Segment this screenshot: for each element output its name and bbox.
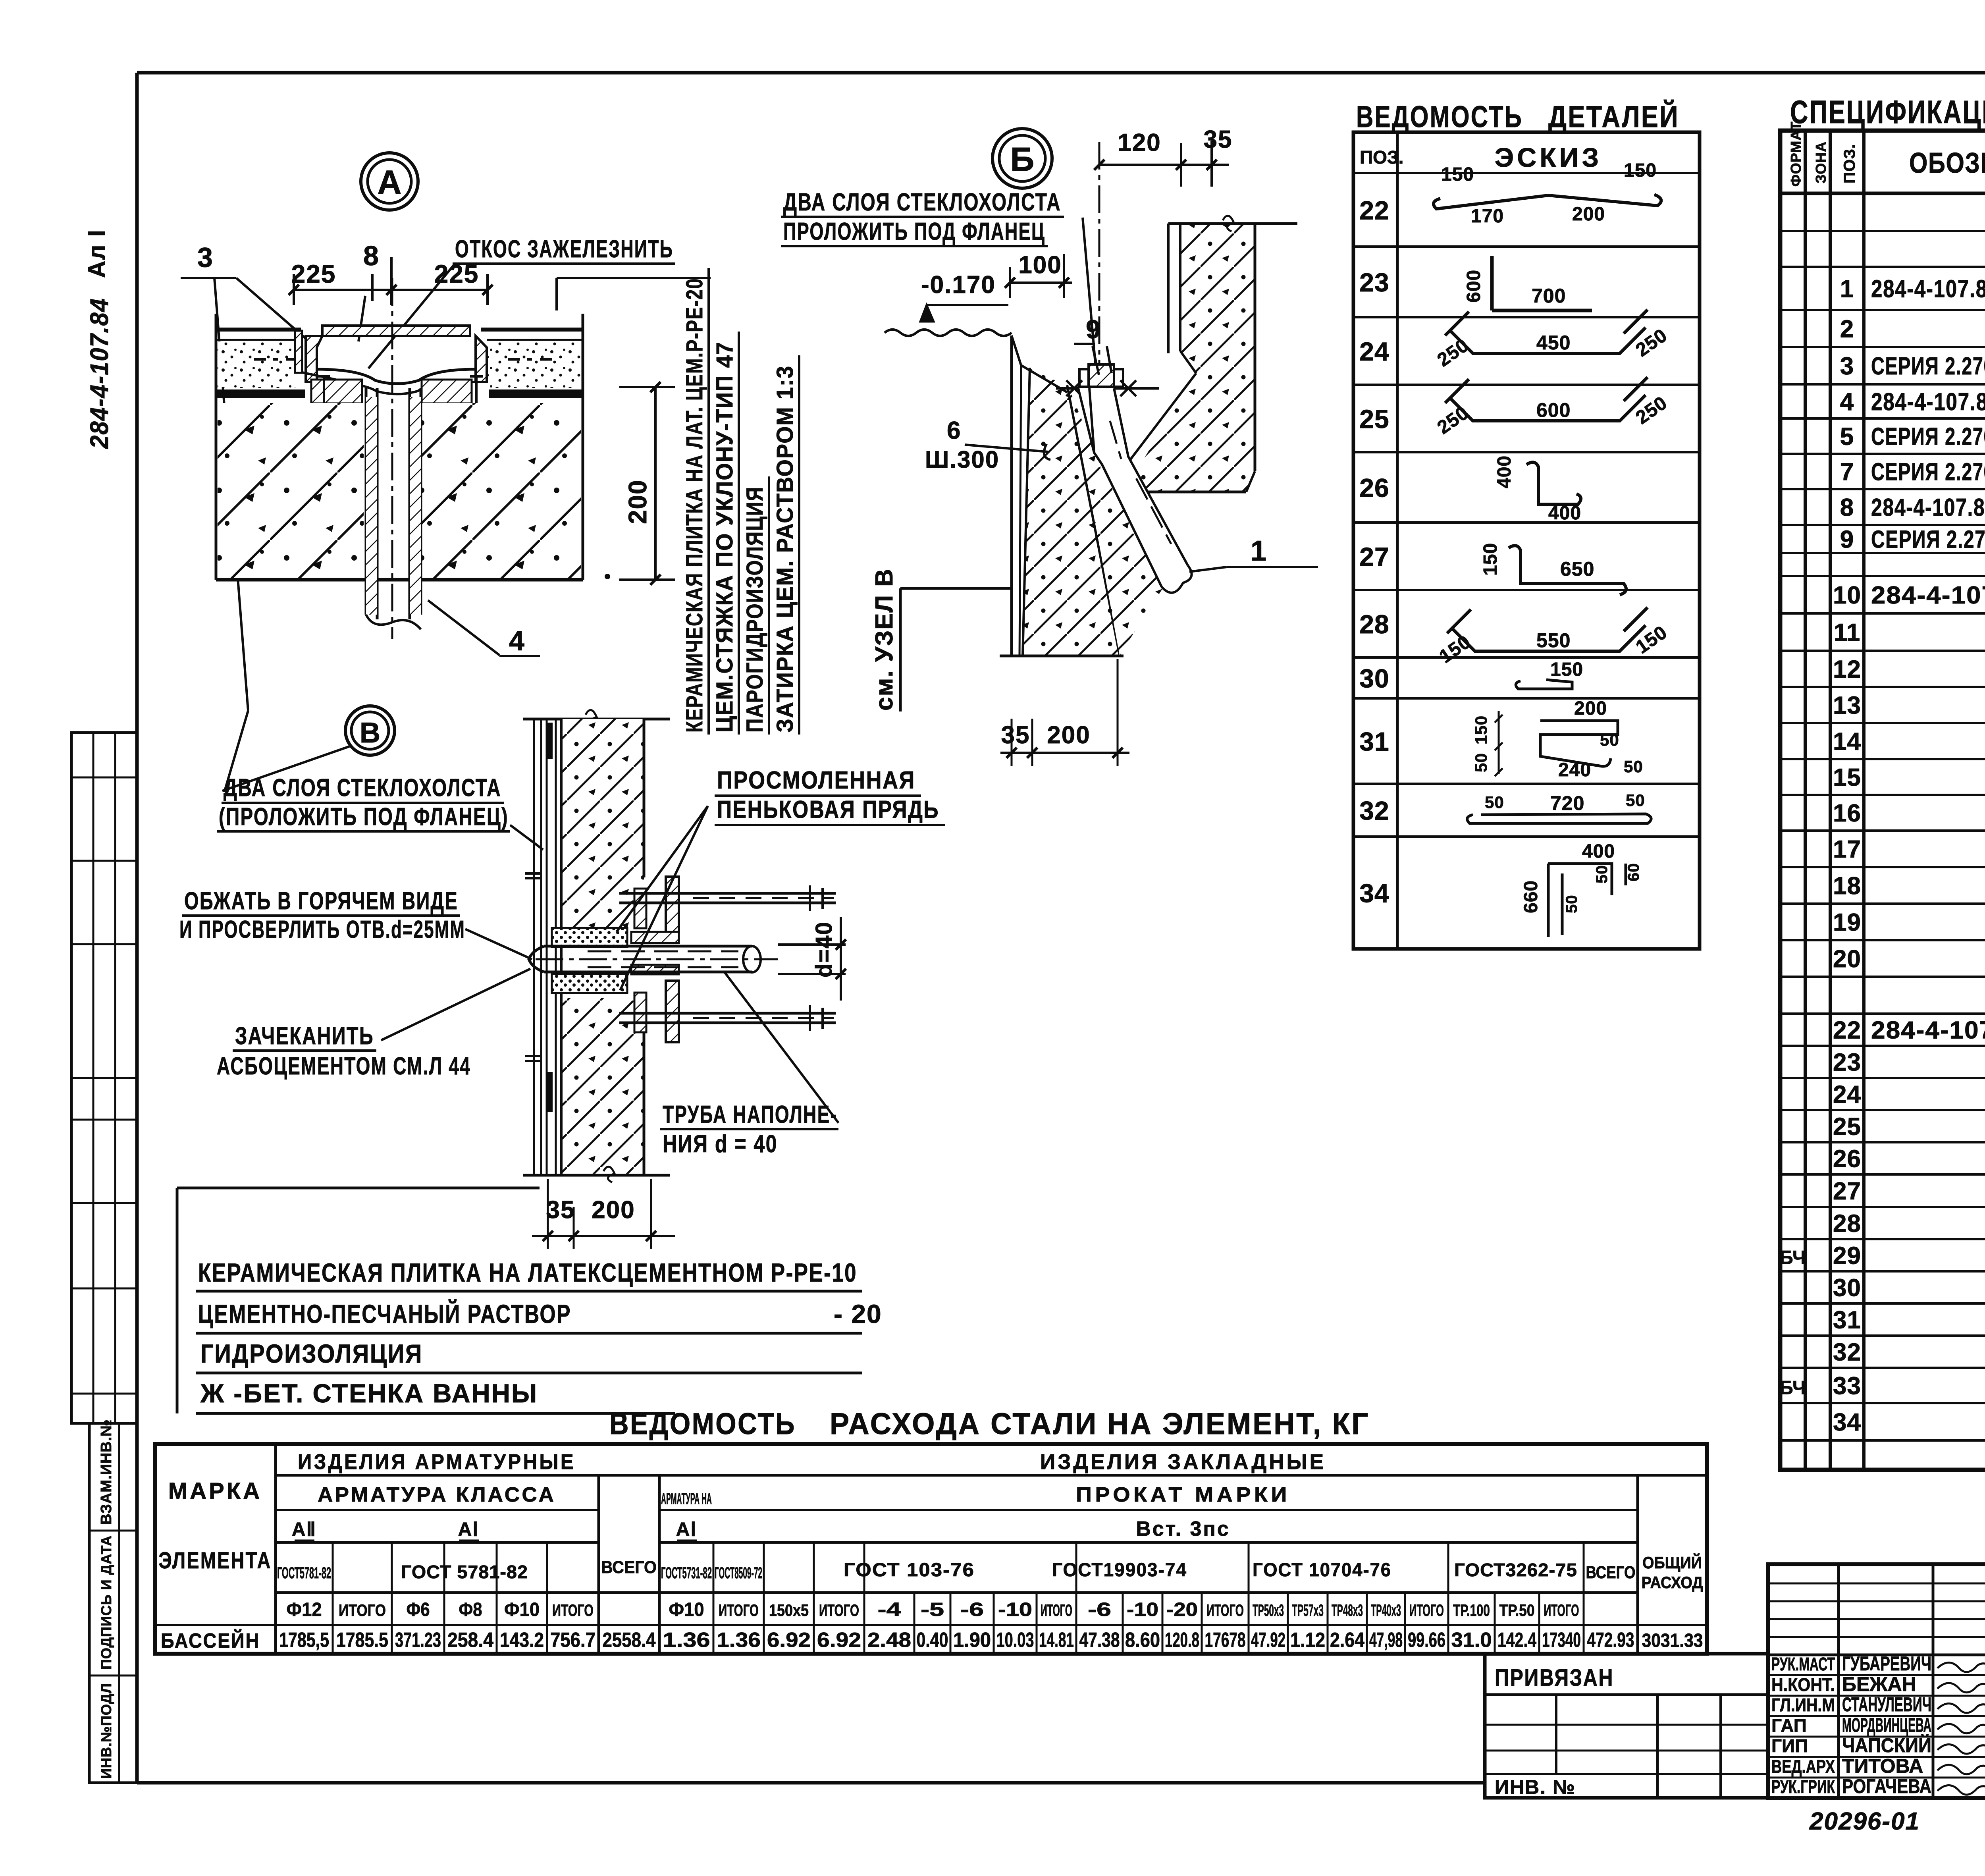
svg-text:400: 400	[1494, 455, 1515, 488]
svg-text:МОРДВИНЦЕВА: МОРДВИНЦЕВА	[1842, 1714, 1931, 1736]
svg-text:34: 34	[1359, 879, 1389, 908]
svg-text:ЗАЧЕКАНИТЬ: ЗАЧЕКАНИТЬ	[235, 1022, 374, 1050]
svg-text:35: 35	[546, 1196, 575, 1224]
svg-text:14.81: 14.81	[1039, 1629, 1074, 1652]
svg-text:ТР50х3: ТР50х3	[1253, 1601, 1284, 1620]
svg-text:Ж -БЕТ. СТЕНКА ВАННЫ: Ж -БЕТ. СТЕНКА ВАННЫ	[200, 1379, 538, 1408]
svg-text:11: 11	[1834, 619, 1861, 646]
svg-text:ОБЩИЙ: ОБЩИЙ	[1642, 1553, 1702, 1572]
svg-text:ВЕД.АРХ: ВЕД.АРХ	[1771, 1756, 1835, 1777]
svg-text:ГОСТ19903-74: ГОСТ19903-74	[1052, 1560, 1187, 1581]
svg-text:РОГАЧЕВА: РОГАЧЕВА	[1842, 1775, 1931, 1797]
svg-text:ИТОГО: ИТОГО	[1041, 1601, 1072, 1620]
svg-text:СПЕЦИФИКАЦИЯ: СПЕЦИФИКАЦИЯ	[1790, 94, 1985, 130]
svg-text:1: 1	[1251, 535, 1266, 567]
svg-text:14: 14	[1833, 728, 1861, 756]
svg-text:284-4-107.85 АС1.ИЗ -10. 00: 284-4-107.85 АС1.ИЗ -10. 00	[1871, 276, 1985, 303]
svg-text:ЦЕМЕНТНО-ПЕСЧАНЫЙ РАСТВОР: ЦЕМЕНТНО-ПЕСЧАНЫЙ РАСТВОР	[198, 1299, 571, 1328]
svg-text:284-4-107,85 АС1 Л.47: 284-4-107,85 АС1 Л.47	[1871, 1017, 1985, 1044]
svg-text:170: 170	[1471, 206, 1504, 227]
svg-text:200: 200	[1047, 721, 1090, 749]
svg-text:30: 30	[1359, 664, 1389, 693]
svg-text:2.48: 2.48	[867, 1629, 911, 1652]
svg-text:-5: -5	[921, 1599, 944, 1620]
svg-text:ТР.50: ТР.50	[1499, 1601, 1535, 1620]
svg-text:600: 600	[1536, 399, 1571, 421]
svg-text:Вст. 3пс: Вст. 3пс	[1136, 1517, 1230, 1541]
svg-text:ГИДРОИЗОЛЯЦИЯ: ГИДРОИЗОЛЯЦИЯ	[200, 1339, 423, 1368]
svg-text:ИТОГО: ИТОГО	[819, 1601, 859, 1620]
svg-text:ДВА СЛОЯ СТЕКЛОХОЛСТА: ДВА СЛОЯ СТЕКЛОХОЛСТА	[224, 774, 501, 802]
svg-text:ОБЖАТЬ В ГОРЯЧЕМ ВИДЕ: ОБЖАТЬ В ГОРЯЧЕМ ВИДЕ	[184, 887, 458, 915]
svg-text:-6: -6	[960, 1599, 984, 1620]
svg-text:- 20: - 20	[834, 1299, 882, 1328]
svg-text:СТАНУЛЕВИЧ: СТАНУЛЕВИЧ	[1842, 1693, 1931, 1716]
svg-text:ФОРМАТ: ФОРМАТ	[1788, 121, 1804, 187]
svg-text:Ф10: Ф10	[504, 1599, 540, 1620]
svg-text:АСБОЦЕМЕНТОМ СМ.Л 44: АСБОЦЕМЕНТОМ СМ.Л 44	[217, 1053, 471, 1080]
svg-text:СЕРИЯ 2.270-1 ВЫП.2ЛИСТ54: СЕРИЯ 2.270-1 ВЫП.2ЛИСТ54	[1871, 423, 1985, 451]
svg-text:200: 200	[623, 479, 652, 524]
svg-text:142.4: 142.4	[1497, 1629, 1536, 1652]
svg-text:ИТОГО: ИТОГО	[1206, 1601, 1244, 1620]
svg-text:ГАП: ГАП	[1771, 1715, 1807, 1736]
svg-text:143.2: 143.2	[500, 1629, 544, 1652]
svg-text:16: 16	[1833, 800, 1861, 827]
svg-text:НИЯ d = 40: НИЯ d = 40	[663, 1130, 778, 1158]
svg-text:ГОСТ 10704-76: ГОСТ 10704-76	[1253, 1560, 1391, 1581]
svg-text:-10: -10	[998, 1599, 1032, 1620]
svg-text:17340: 17340	[1542, 1629, 1581, 1652]
svg-text:472.93: 472.93	[1587, 1629, 1634, 1652]
svg-text:ВСЕГО: ВСЕГО	[1586, 1563, 1636, 1582]
svg-text:2.64: 2.64	[1330, 1629, 1364, 1652]
svg-text:22: 22	[1359, 196, 1389, 225]
svg-text:28: 28	[1833, 1210, 1861, 1238]
svg-text:50: 50	[1600, 731, 1619, 749]
svg-text:Ш.300: Ш.300	[925, 446, 999, 473]
svg-text:РАСХОДА СТАЛИ НА ЭЛЕМЕНТ, КГ: РАСХОДА СТАЛИ НА ЭЛЕМЕНТ, КГ	[830, 1407, 1370, 1441]
svg-text:50: 50	[1593, 865, 1611, 884]
svg-text:50: 50	[1563, 895, 1580, 914]
svg-text:ГОСТ 103-76: ГОСТ 103-76	[844, 1560, 975, 1581]
svg-text:120: 120	[1118, 129, 1161, 156]
svg-text:ИНВ. №: ИНВ. №	[1495, 1776, 1576, 1798]
svg-text:47,98: 47,98	[1369, 1629, 1403, 1652]
svg-text:650: 650	[1560, 558, 1594, 580]
svg-text:9: 9	[1840, 526, 1854, 553]
svg-text:60: 60	[1625, 863, 1642, 882]
svg-text:27: 27	[1833, 1178, 1861, 1205]
svg-text:200: 200	[1572, 204, 1605, 225]
svg-text:150х5: 150х5	[769, 1601, 809, 1620]
svg-text:6.92: 6.92	[767, 1629, 811, 1652]
svg-text:12: 12	[1833, 656, 1861, 683]
svg-text:99.66: 99.66	[1408, 1629, 1445, 1652]
svg-text:3: 3	[197, 242, 213, 273]
svg-text:Ф12: Ф12	[287, 1599, 322, 1620]
svg-text:150: 150	[1550, 659, 1583, 680]
svg-text:50: 50	[1624, 757, 1643, 776]
svg-text:ИТОГО: ИТОГО	[1409, 1601, 1444, 1620]
svg-text:26: 26	[1833, 1145, 1861, 1173]
svg-text:28: 28	[1359, 609, 1389, 639]
svg-text:30: 30	[1833, 1274, 1861, 1302]
svg-text:ГОСТ3262-75: ГОСТ3262-75	[1454, 1560, 1577, 1580]
svg-text:ОТКОС ЗАЖЕЛЕЗНИТЬ: ОТКОС ЗАЖЕЛЕЗНИТЬ	[455, 235, 673, 263]
svg-text:284-4-107.85АС1. ИЗ -11. 00: 284-4-107.85АС1. ИЗ -11. 00	[1871, 388, 1985, 416]
svg-text:150: 150	[1441, 164, 1474, 185]
svg-text:см. УЗЕЛ В: см. УЗЕЛ В	[871, 568, 898, 711]
svg-text:34: 34	[1833, 1409, 1861, 1436]
svg-text:100: 100	[1018, 251, 1062, 279]
svg-text:720: 720	[1550, 792, 1584, 814]
svg-text:2558.4: 2558.4	[603, 1629, 656, 1652]
svg-text:А: А	[378, 164, 402, 201]
svg-text:20: 20	[1833, 945, 1861, 973]
svg-text:9: 9	[1086, 314, 1100, 344]
svg-text:29: 29	[1833, 1242, 1861, 1270]
svg-text:ТР48х3: ТР48х3	[1332, 1601, 1363, 1620]
svg-text:8.60: 8.60	[1125, 1629, 1160, 1652]
svg-text:10: 10	[1833, 582, 1861, 609]
svg-text:23: 23	[1833, 1049, 1861, 1076]
svg-text:ИТОГО: ИТОГО	[719, 1601, 759, 1620]
svg-text:10.03: 10.03	[996, 1629, 1034, 1652]
svg-text:17: 17	[1833, 836, 1861, 863]
svg-text:РАСХОД: РАСХОД	[1642, 1573, 1703, 1592]
svg-text:ДВА СЛОЯ СТЕКЛОХОЛСТА: ДВА СЛОЯ СТЕКЛОХОЛСТА	[783, 189, 1061, 216]
svg-text:1.36: 1.36	[663, 1629, 710, 1652]
svg-text:В: В	[360, 717, 380, 749]
svg-text:6: 6	[947, 417, 960, 444]
svg-text:25: 25	[1833, 1113, 1861, 1141]
svg-text:ПОЗ.: ПОЗ.	[1841, 144, 1858, 183]
svg-text:ЦЕМ.СТЯЖКА ПО УКЛОНУ-ТИП 47: ЦЕМ.СТЯЖКА ПО УКЛОНУ-ТИП 47	[712, 341, 738, 733]
svg-text:550: 550	[1536, 629, 1571, 652]
svg-text:БАССЕЙН: БАССЕЙН	[161, 1629, 260, 1652]
svg-text:-10: -10	[1127, 1599, 1158, 1620]
svg-text:(ПРОЛОЖИТЬ ПОД ФЛАНЕЦ): (ПРОЛОЖИТЬ ПОД ФЛАНЕЦ)	[219, 803, 509, 831]
svg-text:d=40: d=40	[811, 921, 837, 978]
svg-text:200: 200	[592, 1196, 635, 1224]
svg-text:ИНВ.№ПОДЛ: ИНВ.№ПОДЛ	[98, 1683, 114, 1779]
svg-text:120.8: 120.8	[1165, 1629, 1199, 1652]
svg-text:150: 150	[1472, 715, 1490, 744]
svg-text:50: 50	[1472, 753, 1490, 772]
svg-text:ТИТОВА: ТИТОВА	[1842, 1755, 1923, 1777]
svg-text:450: 450	[1536, 332, 1571, 354]
svg-text:26: 26	[1359, 473, 1389, 503]
svg-text:1.36: 1.36	[717, 1629, 761, 1652]
svg-text:150: 150	[1480, 543, 1501, 576]
svg-text:ГОСТ 5781-82: ГОСТ 5781-82	[401, 1562, 528, 1582]
svg-text:284-4-107.85АС1. ИЗ - 26. 00: 284-4-107.85АС1. ИЗ - 26. 00	[1871, 494, 1985, 521]
svg-text:Н.КОНТ.: Н.КОНТ.	[1771, 1674, 1835, 1695]
svg-text:СЕРИЯ 2.270-1ВЫП.2ЛИСТ52: СЕРИЯ 2.270-1ВЫП.2ЛИСТ52	[1871, 526, 1985, 553]
svg-text:35: 35	[1001, 721, 1030, 749]
svg-text:ПРИВЯЗАН: ПРИВЯЗАН	[1495, 1664, 1614, 1691]
svg-text:СЕРИЯ 2.270-1 ВЫП.2ЛИСТ52: СЕРИЯ 2.270-1 ВЫП.2ЛИСТ52	[1871, 353, 1985, 380]
svg-text:47.92: 47.92	[1251, 1629, 1285, 1652]
svg-text:1.90: 1.90	[953, 1629, 991, 1652]
svg-text:32: 32	[1359, 796, 1389, 825]
svg-text:ПРОСМОЛЕННАЯ: ПРОСМОЛЕННАЯ	[717, 767, 915, 794]
svg-text:ГЛ.ИН.М: ГЛ.ИН.М	[1771, 1695, 1835, 1715]
svg-text:Ал I: Ал I	[83, 229, 110, 278]
svg-text:ПРОЛОЖИТЬ ПОД ФЛАНЕЦ: ПРОЛОЖИТЬ ПОД ФЛАНЕЦ	[783, 218, 1045, 245]
svg-text:Ф8: Ф8	[459, 1599, 482, 1620]
svg-text:258.4: 258.4	[447, 1629, 493, 1652]
svg-text:35: 35	[1204, 126, 1233, 153]
svg-text:240: 240	[1558, 760, 1591, 781]
svg-text:Ф6: Ф6	[407, 1599, 430, 1620]
svg-text:50: 50	[1485, 793, 1504, 812]
svg-text:ПОДПИСЬ И ДАТА: ПОДПИСЬ И ДАТА	[98, 1535, 114, 1670]
svg-text:АРМАТУРА КЛАССА: АРМАТУРА КЛАССА	[318, 1483, 556, 1506]
svg-text:АⅠ: АⅠ	[458, 1519, 479, 1540]
svg-text:371.23: 371.23	[395, 1629, 441, 1652]
svg-text:Б: Б	[1010, 141, 1034, 178]
svg-text:МАРКА: МАРКА	[168, 1478, 262, 1504]
svg-text:ЭСКИЗ: ЭСКИЗ	[1495, 143, 1602, 173]
svg-text:31.0: 31.0	[1451, 1629, 1492, 1652]
svg-text:ГИП: ГИП	[1771, 1735, 1808, 1756]
svg-text:0.40: 0.40	[917, 1629, 948, 1652]
svg-text:ГУБАРЕВИЧ: ГУБАРЕВИЧ	[1842, 1652, 1931, 1675]
svg-text:13: 13	[1833, 692, 1861, 719]
svg-text:ПОЗ.: ПОЗ.	[1360, 147, 1403, 168]
svg-text:15: 15	[1833, 764, 1861, 791]
svg-text:4: 4	[509, 625, 524, 656]
svg-text:ГОСТ8509-72: ГОСТ8509-72	[715, 1564, 762, 1582]
svg-text:3: 3	[1840, 353, 1854, 380]
svg-text:ИТОГО: ИТОГО	[339, 1601, 386, 1620]
svg-text:БЧ: БЧ	[1779, 1378, 1806, 1399]
svg-text:756.7: 756.7	[550, 1629, 595, 1652]
svg-text:РУК.МАСТ: РУК.МАСТ	[1771, 1654, 1835, 1674]
svg-text:КЕРАМИЧЕСКАЯ ПЛИТКА НА ЛАТ. ЦЕ: КЕРАМИЧЕСКАЯ ПЛИТКА НА ЛАТ. ЦЕМ.Р-РЕ-20	[682, 278, 707, 733]
svg-text:ИЗДЕЛИЯ АРМАТУРНЫЕ: ИЗДЕЛИЯ АРМАТУРНЫЕ	[298, 1450, 576, 1474]
svg-text:ДЕТАЛЕЙ: ДЕТАЛЕЙ	[1548, 100, 1679, 134]
svg-text:33: 33	[1833, 1373, 1861, 1400]
svg-text:ЗОНА: ЗОНА	[1813, 141, 1829, 183]
svg-text:ЧАПСКИЙ: ЧАПСКИЙ	[1842, 1734, 1931, 1756]
svg-text:РУК.ГРИК: РУК.ГРИК	[1771, 1776, 1835, 1797]
svg-text:22: 22	[1833, 1017, 1861, 1044]
svg-text:24: 24	[1359, 337, 1389, 366]
svg-text:1: 1	[1840, 276, 1854, 303]
svg-text:7: 7	[1840, 459, 1854, 486]
svg-text:31: 31	[1359, 727, 1389, 756]
svg-text:ВЕДОМОСТЬ: ВЕДОМОСТЬ	[609, 1407, 796, 1441]
svg-text:-0.170: -0.170	[921, 271, 996, 299]
svg-text:ВЕДОМОСТЬ: ВЕДОМОСТЬ	[1356, 100, 1523, 134]
svg-text:ЗАТИРКА ЦЕМ. РАСТВОРОМ 1:3: ЗАТИРКА ЦЕМ. РАСТВОРОМ 1:3	[772, 365, 798, 733]
svg-text:ПАРОГИДРОИЗОЛЯЦИЯ: ПАРОГИДРОИЗОЛЯЦИЯ	[742, 486, 768, 733]
svg-text:6.92: 6.92	[817, 1629, 861, 1652]
svg-text:И ПРОСВЕРЛИТЬ ОТВ.d=25ММ: И ПРОСВЕРЛИТЬ ОТВ.d=25ММ	[179, 916, 465, 943]
svg-text:БЕЖАН: БЕЖАН	[1842, 1673, 1916, 1695]
svg-text:19: 19	[1833, 909, 1861, 936]
svg-text:ИТОГО: ИТОГО	[1544, 1601, 1579, 1620]
svg-text:ГОСТ5731-82: ГОСТ5731-82	[661, 1564, 712, 1582]
svg-text:СЕРИЯ 2.270-1ВЫП.2 ЛИСТ61: СЕРИЯ 2.270-1ВЫП.2 ЛИСТ61	[1871, 459, 1985, 486]
svg-text:660: 660	[1521, 880, 1542, 913]
svg-text:БЧ: БЧ	[1779, 1247, 1806, 1269]
svg-text:ТРУБА НАПОЛНЕ-: ТРУБА НАПОЛНЕ-	[663, 1101, 837, 1128]
svg-text:-20: -20	[1166, 1599, 1198, 1620]
svg-text:-4: -4	[878, 1599, 901, 1620]
svg-text:32: 32	[1833, 1339, 1861, 1366]
svg-text:18: 18	[1833, 872, 1861, 900]
svg-text:2: 2	[1840, 316, 1854, 343]
svg-text:8: 8	[363, 240, 379, 271]
svg-text:ТР57х3: ТР57х3	[1292, 1601, 1324, 1620]
svg-text:-6: -6	[1088, 1599, 1111, 1620]
svg-text:ЭЛЕМЕНТА: ЭЛЕМЕНТА	[159, 1548, 272, 1573]
svg-text:1.12: 1.12	[1290, 1629, 1325, 1652]
svg-text:50: 50	[1626, 791, 1645, 810]
svg-text:25: 25	[1359, 404, 1389, 434]
svg-text:АⅡ: АⅡ	[292, 1519, 316, 1540]
svg-text:200: 200	[1574, 698, 1607, 719]
svg-text:24: 24	[1833, 1081, 1861, 1109]
svg-text:700: 700	[1532, 285, 1566, 307]
svg-text:47.38: 47.38	[1079, 1629, 1120, 1652]
svg-text:150: 150	[1624, 160, 1657, 181]
svg-text:ВЗАМ.ИНВ.№: ВЗАМ.ИНВ.№	[98, 1419, 115, 1525]
svg-text:5: 5	[1840, 423, 1854, 451]
svg-text:600: 600	[1463, 270, 1484, 303]
svg-text:20296-01: 20296-01	[1809, 1808, 1920, 1835]
svg-text:23: 23	[1359, 268, 1389, 297]
svg-text:17678: 17678	[1205, 1629, 1246, 1652]
svg-text:31: 31	[1833, 1307, 1861, 1334]
svg-text:ПРОКАТ МАРКИ: ПРОКАТ МАРКИ	[1076, 1483, 1290, 1506]
svg-text:284-4-107.85 И2-02.00: 284-4-107.85 И2-02.00	[1871, 582, 1985, 609]
svg-text:3031.33: 3031.33	[1642, 1630, 1703, 1651]
svg-text:Ф10: Ф10	[669, 1599, 704, 1620]
svg-text:1785.5: 1785.5	[336, 1629, 388, 1652]
svg-text:27: 27	[1359, 542, 1389, 571]
svg-text:ГОСТ5781-82: ГОСТ5781-82	[277, 1564, 331, 1582]
svg-text:ТР40х3: ТР40х3	[1371, 1601, 1401, 1620]
svg-text:1785,5: 1785,5	[279, 1629, 329, 1652]
svg-text:284-4-107.84: 284-4-107.84	[85, 298, 114, 449]
svg-text:КЕРАМИЧЕСКАЯ ПЛИТКА НА ЛАТЕКСЦ: КЕРАМИЧЕСКАЯ ПЛИТКА НА ЛАТЕКСЦЕМЕНТНОМ Р…	[198, 1258, 857, 1287]
svg-text:ПЕНЬКОВАЯ ПРЯДЬ: ПЕНЬКОВАЯ ПРЯДЬ	[717, 796, 939, 823]
svg-text:ОБОЗНАЧЕНИЕ: ОБОЗНАЧЕНИЕ	[1909, 147, 1985, 179]
svg-text:ВСЕГО: ВСЕГО	[601, 1558, 657, 1577]
svg-text:400: 400	[1548, 503, 1581, 524]
svg-text:ИТОГО: ИТОГО	[552, 1601, 594, 1620]
svg-text:8: 8	[1840, 494, 1854, 521]
svg-text:ИЗДЕЛИЯ ЗАКЛАДНЫЕ: ИЗДЕЛИЯ ЗАКЛАДНЫЕ	[1040, 1450, 1326, 1474]
svg-text:АРМАТУРА НА: АРМАТУРА НА	[661, 1490, 712, 1508]
svg-text:400: 400	[1582, 841, 1615, 862]
svg-text:АⅠ: АⅠ	[676, 1519, 697, 1540]
svg-text:ТР.100: ТР.100	[1453, 1601, 1490, 1620]
svg-text:4: 4	[1840, 388, 1854, 416]
